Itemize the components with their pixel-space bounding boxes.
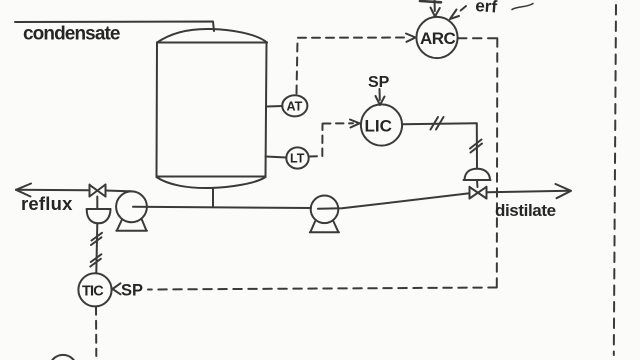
svg-text:ARC: ARC <box>420 29 456 48</box>
instrument (cut off at bottom edge) <box>49 355 76 360</box>
wire vessel bottom outlet <box>212 189 214 208</box>
svg-text:condensate: condensate <box>23 24 120 45</box>
wire actuator to TIC with slashes <box>96 223 97 272</box>
instrument LIC (level indicating controller) <box>361 104 402 145</box>
node arrowhead into LIC <box>350 120 360 128</box>
actuator dome of distillate valve <box>464 169 491 180</box>
wire LT tap <box>266 157 287 158</box>
wire erf tail <box>512 4 533 10</box>
wire pump P1 to pump P2 <box>133 207 311 208</box>
svg-text:distilate: distilate <box>495 201 556 220</box>
actuator dome of reflux valve (inverted) <box>87 209 111 223</box>
svg-text:LT: LT <box>290 152 305 166</box>
node pneumatic slashes upper <box>91 233 102 245</box>
wire TIC bottom dashed signal <box>95 307 97 356</box>
wire condensate feed line <box>15 22 214 32</box>
node pneumatic slashes on vertical <box>470 140 482 153</box>
svg-text:erf: erf <box>475 0 498 17</box>
node pneumatic slashes lower <box>90 254 101 266</box>
node arrowhead into TIC <box>113 283 121 294</box>
wire valve to pump P1 <box>106 190 132 193</box>
vessel V1 (condensate drum) <box>157 29 268 188</box>
wire cut-off mark top edge <box>420 1 441 2</box>
wire top arrow into ARC <box>434 0 436 11</box>
node pneumatic slashes on horizontal <box>431 117 444 130</box>
svg-text:reflux: reflux <box>21 193 73 214</box>
pump P2 <box>310 196 339 233</box>
wire AT tap <box>267 105 283 108</box>
svg-text:SP: SP <box>121 282 143 300</box>
wire reflux valve stem <box>96 197 98 209</box>
svg-text:TIC: TIC <box>82 284 104 300</box>
wire pump P2 to distillate valve <box>318 193 470 209</box>
wire process line left with reflux arrow <box>16 189 89 192</box>
wire right border dashed line <box>614 5 616 355</box>
svg-text:AT: AT <box>287 100 303 114</box>
valve FV distillate <box>470 187 487 199</box>
wire ARC output dashed signal <box>148 38 497 289</box>
wire SP arrow into LIC <box>379 89 381 100</box>
wire LIC output to valve <box>402 123 477 124</box>
instrument LT (level transmitter) <box>286 147 308 168</box>
instrument TIC (temperature indicating controller) <box>78 273 111 306</box>
valve FV reflux <box>90 185 106 197</box>
instrument AT (analyzer transmitter) <box>282 95 307 116</box>
wire LT-to-LIC dashed signal <box>310 123 354 156</box>
svg-text:LIC: LIC <box>365 117 392 136</box>
node arrowhead into ARC <box>406 34 416 42</box>
wire distillate line with arrow <box>487 191 570 193</box>
wire erf-to-ARC dashed diagonal <box>460 6 467 12</box>
instrument ARC (analyzer recording controller) <box>416 17 457 58</box>
wire AT-to-ARC dashed signal <box>297 38 408 94</box>
wire LIC output vertical <box>476 123 478 168</box>
pump P1 <box>116 191 147 230</box>
wire actuator stem <box>476 181 479 188</box>
